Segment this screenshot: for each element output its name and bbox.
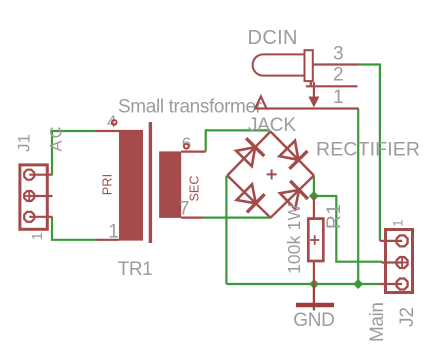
diode D1 (left-top) (236, 147, 255, 166)
rectifier bridge edge B-R (271, 176, 314, 218)
R1 pin top (313, 196, 315, 218)
transformer TR1 primary winding (119, 130, 143, 241)
dc jack plug tip triangle (255, 97, 266, 109)
R1 pin bottom (313, 261, 315, 284)
svg-text:1: 1 (29, 232, 46, 240)
TR1 pin 4 dot (112, 120, 117, 125)
wire net SEC7 to rectifier bottom (204, 217, 271, 219)
svg-text:Small transformer: Small transformer (118, 97, 263, 118)
dc jack center pin arrow (313, 82, 315, 97)
svg-text:2: 2 (333, 64, 344, 85)
J1 pad 1 (24, 170, 34, 180)
connector J1 body (20, 165, 47, 229)
svg-text:J2: J2 (397, 307, 418, 327)
wire jack pin1 down to ground rail (357, 109, 359, 285)
dc jack pin 2 line (306, 82, 358, 87)
svg-text:RECTIFIER: RECTIFIER (316, 139, 420, 161)
svg-text:DCIN: DCIN (248, 27, 298, 49)
wire net SEC6 to rectifier top (206, 130, 271, 151)
TR1 secondary winding (159, 151, 181, 218)
wire net AC bottom: J1 pin3 to TR1 pin1 (52, 217, 97, 240)
junction node ground at R1 (309, 279, 319, 289)
svg-text:AC: AC (48, 126, 66, 151)
svg-text:J1: J1 (15, 134, 34, 152)
J2 pad 1 (397, 235, 408, 246)
ground symbol (313, 284, 315, 310)
svg-text:SEC: SEC (188, 176, 202, 202)
TR1 core (149, 122, 152, 243)
dc jack sleeve rectangle (305, 50, 313, 81)
TR1 pin 7 stub (181, 217, 204, 219)
wire rectifier minus to ground rail (225, 176, 227, 285)
J1 pin 3 stub (29, 216, 52, 218)
dc jack tip line (pin 1) (267, 107, 359, 109)
diode D2 (left-bottom) (237, 184, 256, 203)
junction node plus (rectifier output) (309, 191, 319, 201)
svg-text:7: 7 (179, 198, 190, 219)
TR1 pin 6 dot (184, 144, 189, 149)
svg-text:Main: Main (367, 302, 388, 342)
svg-text:3: 3 (333, 44, 344, 65)
svg-text:PRI: PRI (101, 174, 115, 195)
svg-text:R1: R1 (324, 204, 345, 229)
J2 pad 3 (397, 279, 408, 290)
J1 pin 1 stub (29, 174, 52, 176)
dc jack barrel (253, 54, 304, 75)
resistor R1 body (308, 219, 323, 261)
J1 pad 2 (24, 191, 34, 201)
svg-text:TR1: TR1 (118, 259, 153, 280)
rectifier bridge edge L-B (227, 176, 270, 218)
diode D3 (top-right) (279, 141, 298, 160)
dc jack pin 3 line (314, 63, 359, 65)
connector J2 body (386, 230, 413, 293)
junction node ground at jack wire (353, 279, 363, 289)
TR1 pin 1 stub (96, 239, 119, 241)
svg-text:GND: GND (293, 310, 335, 331)
J2 pin 1 stub (380, 240, 402, 242)
wire rectifier plus down to node (313, 176, 315, 197)
TR1 pin 4 stub (96, 130, 119, 132)
wire ground rail (226, 283, 380, 285)
TR1 pin 6 stub (181, 151, 206, 153)
wire net AC top: J1 pin1 to TR1 pin4 (52, 131, 97, 175)
J2 pin 3 stub (380, 283, 402, 285)
wire plus node to J2 pin2 (314, 196, 382, 262)
rectifier origin cross (267, 169, 277, 179)
svg-text:1: 1 (333, 87, 344, 108)
J2 pin 2 stub (382, 261, 403, 263)
wire jack pin3 to J2 pin1 (359, 65, 380, 241)
svg-text:100k 1W: 100k 1W (284, 204, 304, 274)
J2 pad 2 (397, 257, 408, 268)
svg-text:1: 1 (108, 221, 119, 242)
diode D4 (bottom-right) (280, 190, 299, 209)
rectifier bridge edge T-R (271, 132, 314, 176)
J2 pad 2 cross (397, 258, 407, 268)
svg-text:1: 1 (390, 219, 406, 227)
R1 origin cross (310, 235, 319, 244)
rectifier bridge edge L-T (227, 132, 270, 176)
J1 pad 3 (24, 212, 34, 222)
svg-text:JACK: JACK (248, 115, 296, 136)
J1 pin 2 stub (29, 195, 52, 197)
J1 pad 2 cross (25, 192, 34, 201)
